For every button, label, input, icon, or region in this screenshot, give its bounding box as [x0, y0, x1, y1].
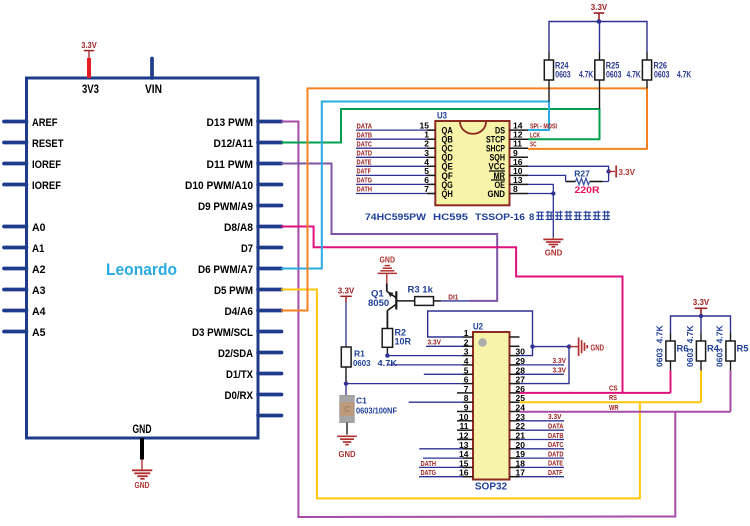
- svg-text:3.3V: 3.3V: [338, 287, 355, 296]
- U2 pin 14: [423, 449, 473, 459]
- svg-text:U2: U2: [473, 322, 483, 333]
- svg-text:SOP32: SOP32: [475, 482, 508, 493]
- pin A2: [4, 264, 46, 276]
- GND pin wire of Leonardo: [140, 438, 144, 470]
- svg-text:D9 PWM/A9: D9 PWM/A9: [198, 201, 253, 213]
- U2 pin 25 / net RS: [510, 393, 702, 403]
- ground symbol sideways at U2 pin30: [569, 338, 604, 357]
- pin D8/A8: [224, 222, 282, 234]
- svg-text:D8/A8: D8/A8: [224, 222, 253, 234]
- svg-text:GND: GND: [488, 189, 506, 200]
- pin A0: [4, 222, 46, 234]
- svg-text:QH: QH: [442, 189, 453, 200]
- 3.3V power symbol above R4 R5 R6: [693, 298, 710, 316]
- svg-text:74HC595PW: 74HC595PW: [365, 212, 426, 223]
- svg-text:A0: A0: [32, 222, 46, 234]
- svg-text:DATD: DATD: [548, 449, 564, 458]
- svg-text:DATG: DATG: [421, 468, 437, 477]
- svg-text:AREF: AREF: [32, 117, 58, 129]
- U2 pin 5: [424, 365, 473, 375]
- svg-text:LCK: LCK: [530, 130, 540, 139]
- svg-text:D0/RX: D0/RX: [225, 390, 254, 402]
- resistor R2 10R: [382, 328, 411, 356]
- junction dot R1 bottom: [344, 381, 348, 395]
- svg-text:SPI - MOSI: SPI - MOSI: [530, 121, 557, 130]
- svg-text:DATC: DATC: [357, 139, 373, 148]
- svg-text:D10 PWM/A10: D10 PWM/A10: [185, 180, 253, 192]
- junction at 3.3V bus: [597, 19, 602, 24]
- svg-text:0603 4.7K: 0603 4.7K: [715, 325, 725, 367]
- U2 right stub row1: [510, 336, 520, 338]
- U3 pin 12 STCP / net LCK: [486, 130, 540, 146]
- U3 pin 3 QD / net DATD: [356, 148, 453, 164]
- U3 pin 7 QH / net DATH: [356, 184, 453, 200]
- U2 right stub row2: [510, 345, 520, 347]
- svg-text:A3: A3: [32, 285, 46, 297]
- svg-text:R3 1k: R3 1k: [408, 285, 434, 296]
- svg-text:A4: A4: [32, 306, 46, 318]
- svg-text:3.3V: 3.3V: [619, 168, 636, 177]
- U2 pin 18 / net DATE: [510, 458, 565, 468]
- wire D8 to CS (deep pink): [281, 227, 623, 393]
- junction dot R2 to pin3 row: [385, 353, 389, 357]
- svg-text:8: 8: [513, 184, 518, 194]
- pin D3 PWM/SCL: [192, 327, 282, 339]
- resistor R6 0603 4.7K: [655, 325, 689, 393]
- resistor R27 220R zigzag: [566, 169, 603, 196]
- U3 pin 16 VCC: [489, 157, 529, 173]
- U3 pin 10 MR: [489, 166, 528, 182]
- svg-text:DATB: DATB: [548, 431, 564, 440]
- svg-text:RS: RS: [609, 393, 617, 402]
- svg-text:4.7K: 4.7K: [378, 358, 398, 368]
- U3 pin 13 OE: [491, 175, 528, 191]
- U2 pin 16 / net DATG: [419, 468, 473, 478]
- pin A3: [4, 285, 46, 297]
- pin D4/A6: [225, 306, 282, 318]
- svg-text:GND: GND: [133, 424, 152, 436]
- ground symbol below Leonardo: [132, 470, 152, 490]
- U3 pin 2 QC / net DATC: [356, 139, 453, 155]
- pin RESET: [4, 138, 64, 150]
- U2 pin 29 / net 3.3V: [510, 356, 567, 366]
- U2 pin 6: [346, 375, 473, 385]
- svg-text:DATA: DATA: [548, 422, 564, 431]
- svg-text:DATH: DATH: [421, 459, 437, 468]
- shift register U3 74HC595: [435, 111, 509, 206]
- svg-text:D3 PWM/SCL: D3 PWM/SCL: [192, 327, 253, 339]
- U2 pin 4: [387, 356, 473, 366]
- svg-text:D13 PWM: D13 PWM: [207, 117, 254, 129]
- junction dot MR/VCC 3.3V: [606, 169, 610, 173]
- svg-text:4.7K: 4.7K: [677, 70, 692, 80]
- U2 pin 15 / net DATH: [419, 458, 473, 468]
- resistor R5 0603 4.7K: [715, 325, 749, 412]
- resistor R1 0603 4.7K: [341, 347, 398, 384]
- U2 pin 12: [457, 431, 473, 441]
- svg-text:3.3V: 3.3V: [693, 298, 710, 307]
- resistor R26 0603 4.7K: [642, 60, 691, 88]
- svg-text:4.7K: 4.7K: [579, 70, 594, 80]
- svg-text:DATF: DATF: [548, 468, 563, 477]
- svg-text:3.3V: 3.3V: [428, 338, 442, 347]
- svg-text:DATB: DATB: [357, 130, 373, 139]
- wire VCC to 3.3V: [528, 166, 609, 181]
- pin D11 PWM: [207, 159, 282, 171]
- pin D12/A11: [214, 138, 282, 150]
- net label DI1 wire: [441, 292, 468, 301]
- svg-text:CS: CS: [609, 384, 618, 393]
- svg-text:0603 4.7K: 0603 4.7K: [685, 325, 695, 367]
- svg-text:VIN: VIN: [145, 84, 162, 96]
- pin D1/TX: [226, 369, 282, 381]
- U2 pin 21 / net DATB: [510, 431, 565, 441]
- U3 caption chinese glyph blocks: [536, 211, 610, 220]
- 3.3V power symbol at 3V3 pin: [81, 41, 97, 78]
- svg-text:DATE: DATE: [357, 158, 372, 167]
- LCD controller U2 SOP32: [473, 322, 510, 493]
- svg-text:3.3V: 3.3V: [553, 366, 567, 375]
- svg-text:0603/100NF: 0603/100NF: [356, 406, 397, 416]
- svg-text:3.3V: 3.3V: [548, 412, 562, 421]
- svg-text:DATC: DATC: [548, 440, 564, 449]
- pin A1: [4, 243, 45, 255]
- U2 pin 11: [457, 421, 473, 431]
- wire D12 to STCP LCK (green): [281, 109, 600, 143]
- U2 pin 1 wire loop to GND net: [428, 311, 533, 347]
- svg-text:0603: 0603: [654, 70, 670, 80]
- U3 pin 9 SQH: [490, 148, 529, 164]
- pin IOREF: [4, 159, 61, 171]
- U3 pin 6 QG / net DATG: [356, 175, 453, 191]
- svg-text:SC: SC: [530, 139, 537, 148]
- pin D6 PWM/A7: [198, 264, 282, 276]
- U2 pin 3: [387, 347, 474, 357]
- svg-text:C: C: [344, 405, 350, 414]
- svg-text:TSSOP-16: TSSOP-16: [475, 212, 525, 223]
- U2 pin 28 / net 3.3V: [510, 365, 567, 375]
- 3.3V power symbol above R1: [338, 287, 355, 348]
- svg-text:GND: GND: [591, 342, 605, 352]
- svg-text:D5 PWM: D5 PWM: [214, 285, 253, 297]
- svg-text:WR: WR: [609, 403, 619, 412]
- svg-text:D6 PWM/A7: D6 PWM/A7: [198, 264, 253, 276]
- svg-text:GND: GND: [380, 255, 396, 265]
- svg-text:A1: A1: [32, 243, 45, 255]
- wire OE to GND row: [528, 184, 553, 193]
- resistor R24 0603 4.7K: [544, 60, 593, 102]
- pin D9 PWM/A9: [198, 201, 282, 213]
- capacitor C1 0603/100NF: [340, 396, 397, 435]
- wire MR through R27: [528, 175, 609, 181]
- pin D0/RX: [225, 390, 282, 402]
- ground symbol below U3: [543, 239, 563, 257]
- svg-text:U3: U3: [437, 111, 447, 122]
- U2 pin 22 / net DATA: [510, 421, 565, 431]
- pin AREF: [4, 117, 58, 129]
- U3 pin 11 SHCP / net SC: [486, 139, 537, 155]
- U3 pin 5 QF / net DATF: [356, 166, 453, 182]
- wire D11 to R3 DI1 (violet): [281, 164, 497, 301]
- svg-text:A2: A2: [32, 264, 46, 276]
- svg-text:3.3V: 3.3V: [81, 41, 97, 50]
- pin unlabeled: [258, 414, 282, 418]
- svg-text:D2/SDA: D2/SDA: [218, 348, 253, 360]
- svg-text:0603: 0603: [606, 70, 622, 80]
- pin D13 PWM: [207, 117, 282, 129]
- pin D5 PWM: [214, 285, 282, 297]
- svg-text:DATG: DATG: [357, 176, 373, 185]
- transistor Q1 8050: [368, 284, 396, 329]
- svg-text:7: 7: [424, 184, 429, 194]
- U2 pin 27: [510, 375, 526, 385]
- U2 pin 9: [457, 403, 473, 413]
- svg-text:R5: R5: [737, 344, 749, 354]
- U2 pin 7: [457, 384, 473, 394]
- pin A4: [4, 306, 46, 318]
- U3 pin 15 QA / net DATA: [356, 121, 453, 137]
- pin D7: [241, 243, 282, 255]
- svg-text:8050: 8050: [368, 298, 389, 309]
- U2 pin 23 / net 3.3V: [510, 412, 565, 422]
- pull-up bus to R6 R4 R5 tops: [671, 314, 731, 341]
- U2 pin 20 / net DATC: [510, 440, 565, 450]
- svg-text:DATE: DATE: [548, 459, 563, 468]
- wire D6 to DS SPI-MOSI (cyan): [281, 102, 549, 269]
- GND symbol above transistor Q1: [378, 255, 397, 284]
- U2 pin 30 GND net: [510, 344, 572, 356]
- svg-text:DATF: DATF: [357, 167, 372, 176]
- U3 pin 8 GND: [488, 184, 529, 200]
- pin D2/SDA: [218, 348, 282, 360]
- svg-text:D11 PWM: D11 PWM: [207, 159, 254, 171]
- svg-text:DATA: DATA: [357, 121, 373, 130]
- svg-text:IOREF: IOREF: [32, 180, 61, 192]
- U3 pin 14 DS / net SPI-MOSI: [495, 121, 557, 137]
- svg-text:GND: GND: [545, 248, 563, 258]
- U2 pin 24 / net WR: [510, 403, 731, 413]
- wire pin27 to GND junction: [519, 347, 569, 384]
- U3 caption 74HC595PW HC595 TSSOP-16: [365, 212, 534, 223]
- svg-text:GND: GND: [339, 449, 356, 459]
- pin IOREF2: [4, 180, 61, 192]
- svg-text:DATD: DATD: [357, 149, 373, 158]
- Arduino Leonardo board U-board: [27, 78, 259, 438]
- svg-text:220R: 220R: [575, 185, 601, 195]
- svg-text:3.3V: 3.3V: [553, 356, 567, 365]
- 3.3V power symbol above R24 R25 R26: [591, 3, 608, 22]
- wire pin8 GND down: [528, 191, 556, 239]
- wire D4 to SHCP SC (orange): [281, 88, 647, 310]
- resistor R4 0603 4.7K: [685, 325, 719, 403]
- pull-up bus wire to resistor tops: [549, 22, 647, 61]
- svg-text:D7: D7: [241, 243, 253, 255]
- wire D13 to WR (orchid): [281, 122, 675, 518]
- svg-text:RESET: RESET: [32, 138, 64, 150]
- svg-text:GND: GND: [135, 480, 150, 490]
- svg-text:DI1: DI1: [448, 292, 458, 301]
- svg-text:4.7K: 4.7K: [627, 70, 642, 80]
- svg-text:10R: 10R: [395, 337, 412, 347]
- svg-text:Leonardo: Leonardo: [106, 260, 177, 279]
- U2 pin 8: [409, 393, 473, 403]
- base wire and resistor R3 1k: [397, 285, 442, 306]
- svg-text:0603: 0603: [555, 70, 571, 80]
- U2 pin 26 / net CS: [510, 384, 671, 394]
- svg-text:3.3V: 3.3V: [591, 3, 608, 12]
- pin A5: [4, 327, 46, 339]
- U3 pin 1 QB / net DATB: [356, 130, 453, 146]
- svg-text:R27: R27: [574, 169, 590, 179]
- U2 pin 2 / net 3.3V: [426, 337, 473, 347]
- svg-text:D12/A11: D12/A11: [214, 138, 254, 150]
- ground symbol below C1: [337, 436, 357, 459]
- svg-text:R1: R1: [354, 349, 365, 359]
- 3.3V power symbol sideways at R27: [609, 166, 636, 178]
- svg-text:IOREF: IOREF: [32, 159, 61, 171]
- U2 pin 17 / net DATF: [510, 468, 565, 478]
- wire D5 to RS (yellow): [281, 290, 640, 499]
- pin D10 PWM/A10: [185, 180, 282, 192]
- svg-text:D4/A6: D4/A6: [225, 306, 254, 318]
- U3 pin 4 QE / net DATE: [356, 157, 453, 173]
- svg-text:0603: 0603: [353, 358, 371, 368]
- svg-text:DATH: DATH: [357, 185, 373, 194]
- U2 pin 13: [419, 440, 473, 450]
- VIN pin stub: [150, 59, 154, 79]
- svg-text:0603 4.7K: 0603 4.7K: [655, 325, 665, 367]
- resistor R25 0603 4.7K: [595, 60, 641, 109]
- svg-text:3V3: 3V3: [82, 84, 99, 96]
- svg-text:A5: A5: [32, 327, 46, 339]
- svg-text:8: 8: [529, 212, 534, 223]
- svg-text:D1/TX: D1/TX: [226, 369, 254, 381]
- svg-text:C1: C1: [356, 396, 367, 406]
- U2 pin 10: [457, 412, 473, 422]
- svg-text:HC595: HC595: [433, 212, 469, 223]
- U2 pin 19 / net DATD: [510, 449, 565, 459]
